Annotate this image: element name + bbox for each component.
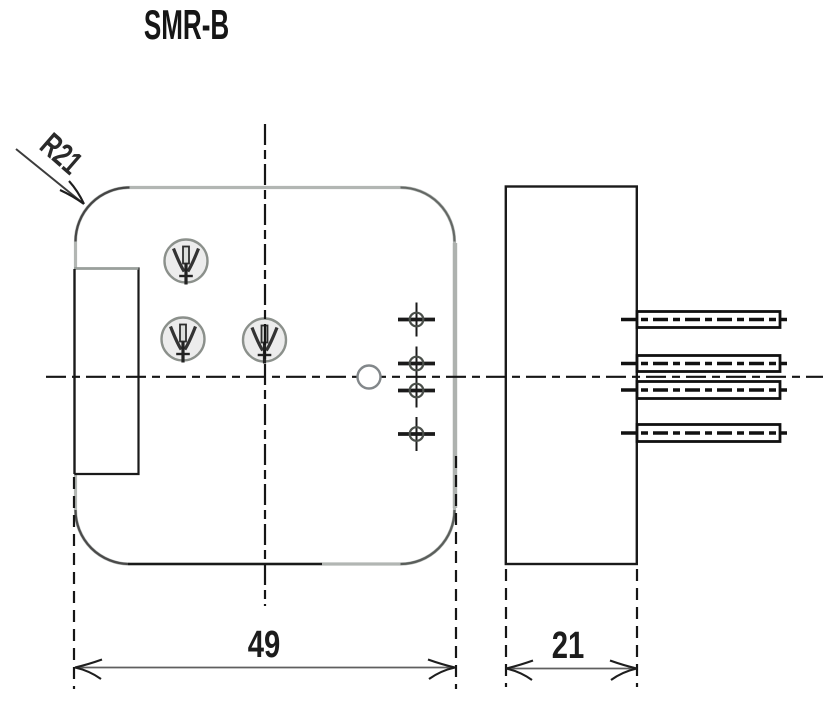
svg-text:21: 21	[552, 624, 585, 667]
svg-text:49: 49	[248, 623, 281, 666]
svg-text:SMR-B: SMR-B	[144, 2, 229, 49]
